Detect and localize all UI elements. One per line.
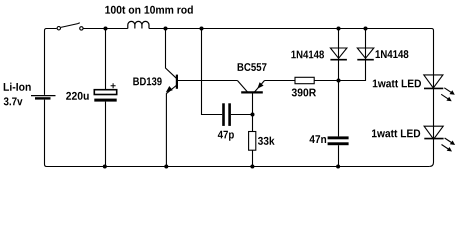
inductor L1 100t	[128, 21, 149, 28]
resistor R1 390R	[295, 77, 314, 83]
LED D3 1watt	[424, 75, 455, 101]
node top rail diode D2 junction	[364, 27, 368, 31]
wire BC557 base down to node	[252, 94, 254, 115]
transistor Q1 BD139	[166, 29, 177, 167]
wire 390R to node D	[314, 80, 338, 82]
label BC557	[238, 63, 267, 71]
wire bottom rail	[48, 166, 429, 168]
capacitor C2 47p	[222, 103, 252, 126]
node D 390R diode 47n junction	[337, 79, 341, 83]
label 47p	[218, 131, 234, 141]
label 3.7v	[4, 97, 23, 105]
node top rail 47p junction	[200, 27, 204, 31]
label 100t on 10mm rod	[105, 5, 193, 13]
node top rail BD139 collector junction	[164, 27, 168, 31]
label 390R	[292, 88, 316, 96]
label BD139	[133, 77, 161, 85]
LED D4 1watt	[424, 126, 455, 151]
capacitor C1 220u electrolytic	[94, 29, 116, 167]
wire BC557 emitter to 390R	[265, 80, 296, 82]
label 220u	[66, 92, 89, 100]
wire 47p top feed from rail	[202, 29, 223, 115]
label 47n	[310, 135, 327, 143]
label 1watt LED top	[373, 80, 421, 88]
resistor R2 33k	[249, 132, 256, 151]
switch SW1	[57, 23, 83, 30]
battery B1 Li-Ion	[31, 96, 56, 100]
label 1N4148 left	[291, 50, 324, 58]
node bottom rail 220u junction	[103, 165, 107, 169]
diode D1 1N4148	[330, 29, 347, 81]
wire top-left corner to switch	[45, 29, 57, 95]
node top rail 220u junction	[104, 27, 108, 31]
wire BD139 base to BC557 collector	[178, 80, 237, 82]
label 1watt LED bottom	[372, 129, 420, 137]
node bottom rail 33k junction	[250, 165, 254, 169]
wire node to 33k	[252, 115, 254, 132]
wire battery negative to bottom-left corner	[45, 100, 49, 167]
label 1N4148 right	[376, 50, 409, 58]
node 47p 33k BC557 base junction	[251, 113, 255, 117]
label Li-Ion	[4, 83, 31, 91]
node top rail diode D1 junction	[337, 27, 341, 31]
node bottom rail BD139 emitter junction	[164, 165, 168, 169]
wire top rail inductor to top-right corner	[149, 29, 434, 31]
label 33k	[258, 137, 275, 145]
wire top rail switch to inductor	[83, 28, 128, 30]
diode D2 1N4148	[339, 29, 374, 81]
wire bottom-right corner and right rail	[429, 31, 433, 167]
node bottom rail 47n junction	[336, 165, 340, 169]
capacitor C3 47n	[328, 81, 349, 167]
transistor Q2 BC557	[237, 81, 264, 93]
wire 33k to bottom rail	[252, 150, 254, 166]
